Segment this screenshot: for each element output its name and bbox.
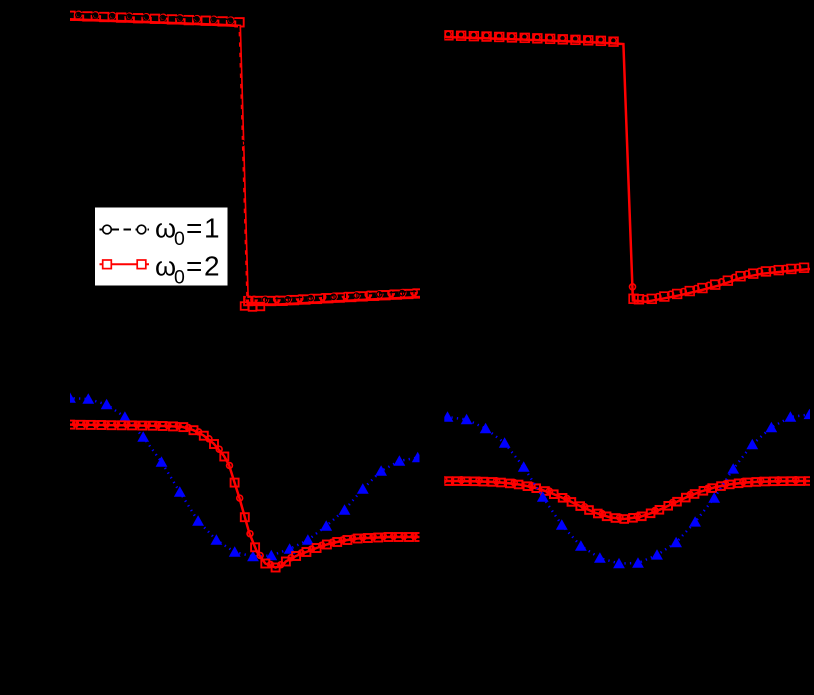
svg-text:ω: ω: [155, 252, 176, 282]
bottom-left: red solid line: [68, 425, 420, 568]
top-left: red square fragments at step bottom: [241, 302, 265, 311]
svg-text:0: 0: [174, 228, 185, 250]
svg-text:2: 2: [204, 251, 220, 282]
bottom-right: red solid line: [444, 481, 811, 519]
bottom-right: red circle markers: [441, 477, 799, 521]
top-right: red square markers: [444, 31, 808, 304]
bottom-right: blue dotted line: [446, 414, 811, 563]
bottom-left: blue dotted line: [68, 398, 420, 557]
top-left: red square markers: [66, 12, 424, 306]
bottom-right: blue triangle markers: [442, 409, 814, 569]
top-right: red circle markers: [445, 31, 800, 302]
svg-text:ω: ω: [155, 213, 176, 243]
bottom-left: blue triangle markers: [64, 392, 424, 561]
svg-text:=: =: [186, 251, 202, 282]
svg-text:=: =: [186, 212, 202, 243]
legend entry 1: black dashed line with circle markers: [100, 229, 150, 231]
legend box: [95, 207, 229, 286]
bottom-left: red square markers: [66, 421, 423, 572]
top-left: red solid line (w0=2): [68, 19, 421, 304]
svg-text:1: 1: [204, 212, 220, 243]
bottom-left: red circle markers: [62, 421, 417, 568]
legend text w0 = 1: [155, 212, 220, 250]
legend text w0 = 2: [155, 251, 220, 289]
top-right: red solid line: [444, 37, 811, 302]
top-left: black dashed line (w0=1): [68, 13, 421, 298]
legend entry 2: red solid line with square markers: [100, 263, 150, 265]
top-left: black circle markers: [59, 12, 405, 303]
bottom-right: red square markers: [444, 477, 812, 523]
top-left: red circle markers: [59, 11, 417, 303]
svg-text:0: 0: [174, 266, 185, 288]
